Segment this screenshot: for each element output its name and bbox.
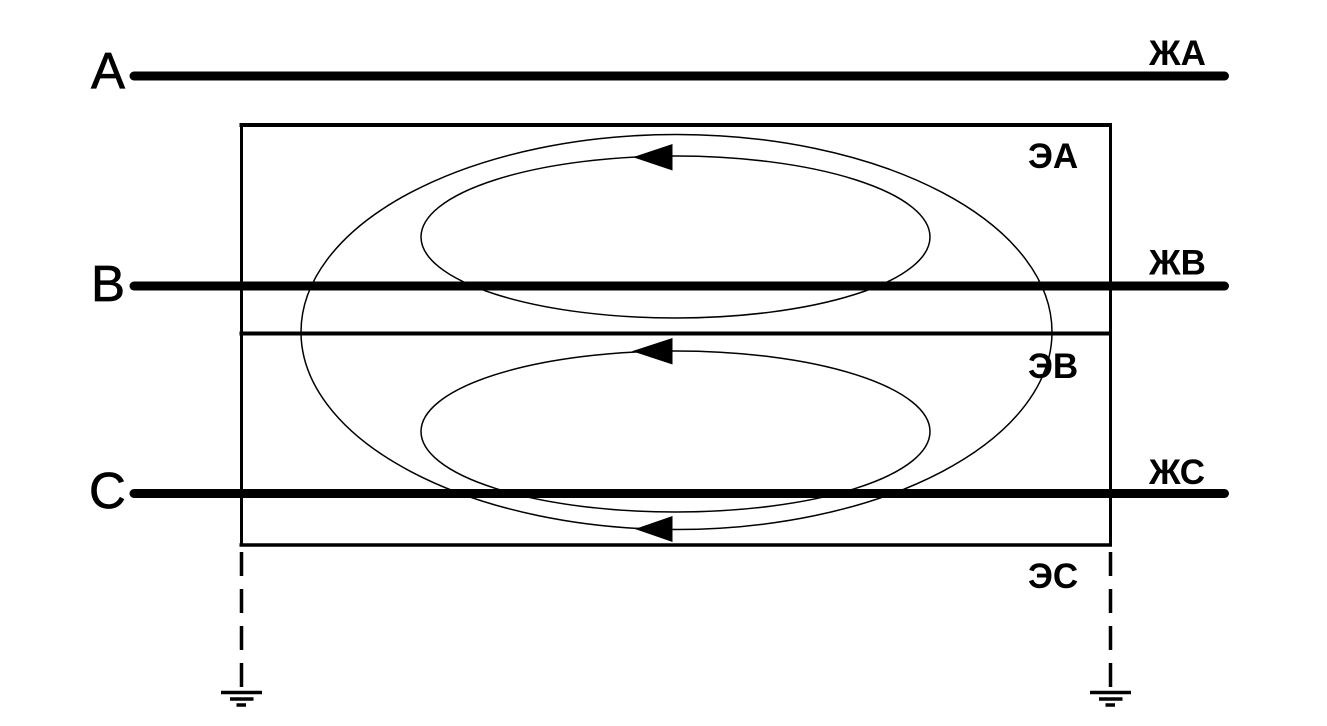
svg-text:ЭС: ЭС [1028, 557, 1078, 596]
wire: right grounding conductor (dashed) [1109, 552, 1113, 687]
svg-text:A: A [91, 43, 125, 100]
svg-text:ЭА: ЭА [1028, 137, 1078, 176]
circulating current loop 2 (bottom band ellipse) [421, 351, 930, 512]
screen box ЭА (top section) [240, 123, 1113, 545]
arrowhead on loop 2 [632, 338, 673, 365]
svg-text:ЖА: ЖА [1148, 34, 1206, 73]
svg-text:ЖВ: ЖВ [1148, 244, 1206, 283]
svg-text:B: B [91, 255, 125, 312]
wire: phase core B (ЖВ) [134, 282, 1225, 291]
circulating current loop 3 (large ellipse) [301, 135, 1052, 530]
arrowhead on loop 1 [633, 144, 673, 171]
circulating current loop 1 (top band ellipse) [421, 156, 930, 318]
svg-text:C: C [89, 462, 126, 519]
wire: phase core C (ЖС) [134, 489, 1225, 498]
wire: left grounding conductor (dashed) [240, 552, 244, 687]
arrowhead on loop 3 [635, 516, 673, 542]
ground (left) [221, 693, 262, 706]
svg-text:ЖС: ЖС [1148, 453, 1205, 492]
ground (right) [1090, 693, 1131, 706]
wire: phase core A (ЖА) [134, 72, 1225, 81]
svg-text:ЭВ: ЭВ [1028, 347, 1078, 386]
